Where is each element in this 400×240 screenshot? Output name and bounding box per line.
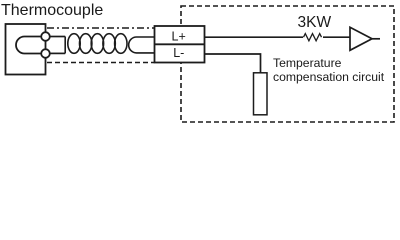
thermocouple body [6,24,46,75]
junction circle top [41,32,50,41]
coil end loop to terminals [129,37,155,53]
thermocouple element U wire [16,37,45,54]
compensating lead coil [68,34,127,54]
resistor 3KW zigzag [304,34,322,41]
svg-text:L-: L- [173,46,184,60]
terminal block [155,26,205,63]
svg-text:compensation circuit: compensation circuit [273,70,385,84]
svg-text:3KW: 3KW [298,14,332,31]
wire top lead [50,36,65,38]
dashed enclosure (instrument boundary) [181,6,394,122]
svg-text:Thermocouple: Thermocouple [1,2,103,19]
compensation component [254,73,268,115]
dashed cable boundary bottom [47,62,155,64]
svg-text:L+: L+ [172,29,186,43]
op-amp amplifier [350,27,372,50]
wire resistor to amplifier [323,36,350,38]
wire bottom lead [50,52,65,54]
junction circle bottom [41,49,50,58]
dashed cable boundary top [47,27,155,29]
wire amplifier output [372,38,380,40]
terminal divider [155,43,205,45]
wire L- to compensation component [205,54,261,73]
coil start bar [64,37,66,54]
svg-text:Temperature: Temperature [273,56,342,70]
wire L+ to resistor [205,36,304,38]
